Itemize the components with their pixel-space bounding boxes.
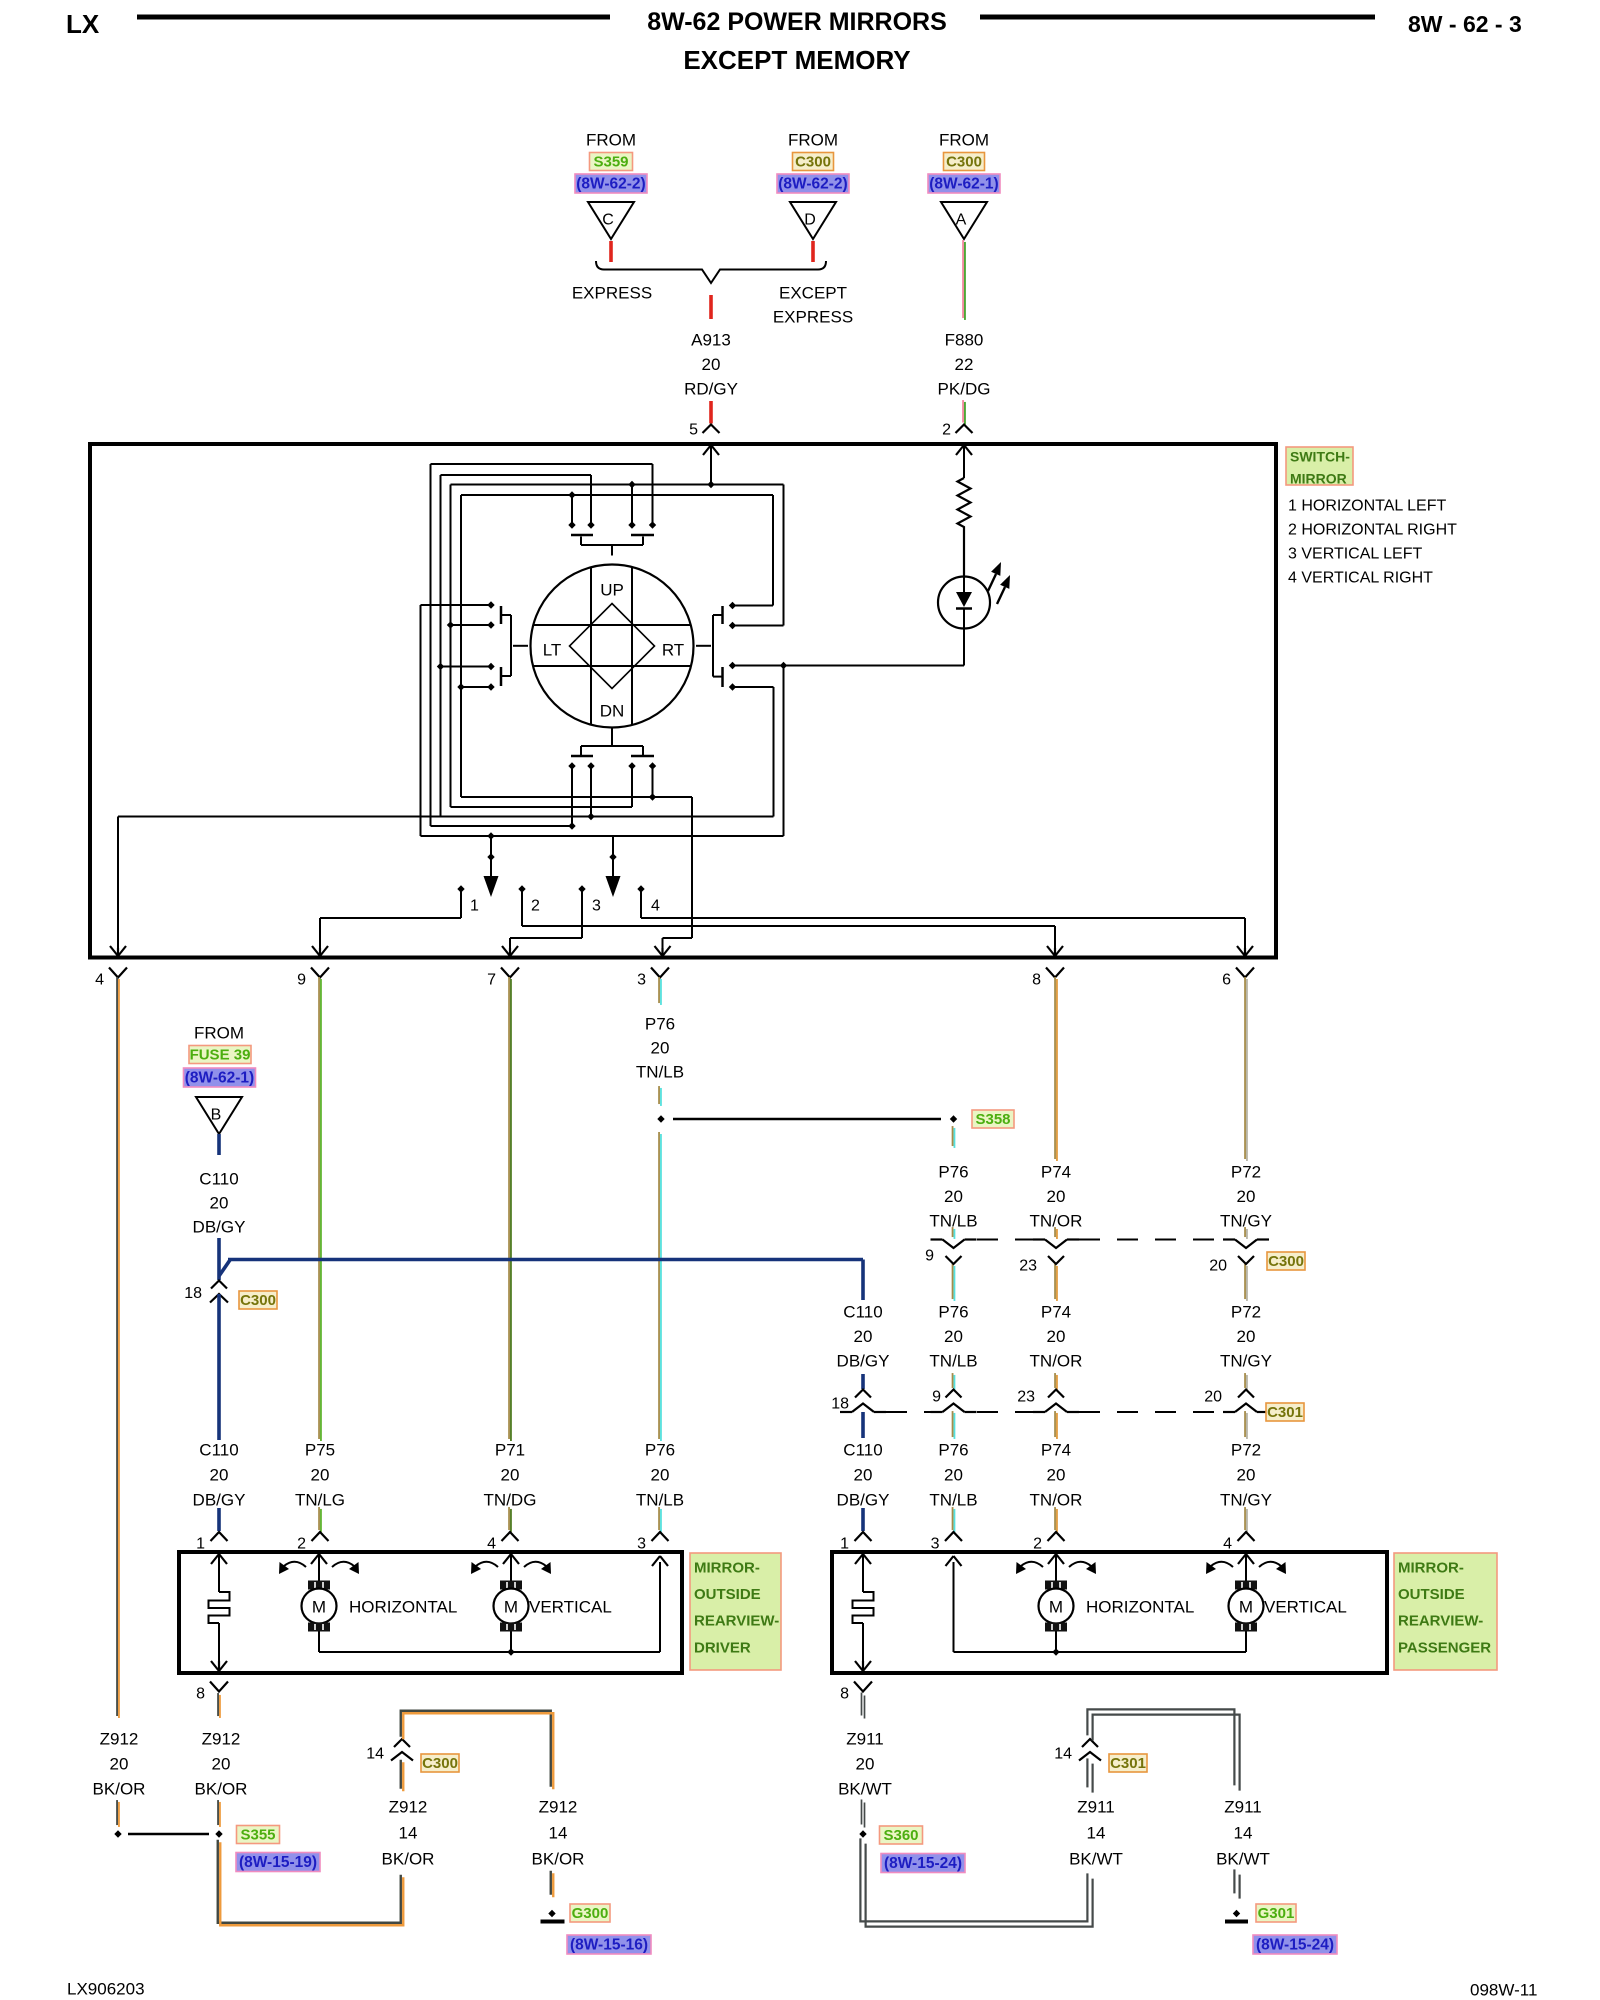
svg-text:8W-62 POWER MIRRORS: 8W-62 POWER MIRRORS (647, 8, 947, 36)
svg-text:BK/OR: BK/OR (532, 1850, 585, 1869)
svg-text:BK/OR: BK/OR (195, 1780, 248, 1799)
svg-text:20: 20 (854, 1327, 873, 1346)
svg-text:BK/OR: BK/OR (382, 1850, 435, 1869)
svg-text:MIRROR-: MIRROR- (694, 1560, 760, 1577)
svg-text:4 VERTICAL RIGHT: 4 VERTICAL RIGHT (1288, 570, 1433, 587)
svg-text:A913: A913 (691, 331, 731, 350)
svg-text:3: 3 (637, 972, 646, 989)
svg-text:TN/OR: TN/OR (1030, 1491, 1083, 1510)
svg-text:9: 9 (297, 972, 306, 989)
svg-text:(8W-62-2): (8W-62-2) (576, 176, 645, 193)
svg-text:18: 18 (831, 1396, 849, 1413)
svg-text:EXCEPT MEMORY: EXCEPT MEMORY (683, 45, 910, 75)
svg-text:1: 1 (196, 1536, 205, 1553)
svg-text:20: 20 (944, 1466, 963, 1485)
svg-text:EXPRESS: EXPRESS (773, 308, 853, 327)
svg-text:REARVIEW-: REARVIEW- (1398, 1613, 1483, 1630)
svg-text:14: 14 (549, 1824, 568, 1843)
svg-text:8: 8 (196, 1686, 205, 1703)
svg-text:P75: P75 (305, 1441, 335, 1460)
svg-text:P76: P76 (938, 1441, 968, 1460)
svg-text:2 HORIZONTAL RIGHT: 2 HORIZONTAL RIGHT (1288, 522, 1457, 539)
svg-text:S358: S358 (975, 1111, 1010, 1128)
svg-text:20: 20 (854, 1466, 873, 1485)
svg-text:1: 1 (470, 898, 479, 915)
svg-text:PK/DG: PK/DG (938, 380, 991, 399)
svg-text:8: 8 (840, 1686, 849, 1703)
svg-text:G300: G300 (572, 1905, 609, 1922)
svg-text:C110: C110 (843, 1303, 882, 1322)
svg-text:VERTICAL: VERTICAL (529, 1598, 612, 1617)
svg-text:20: 20 (1209, 1258, 1227, 1275)
svg-text:1: 1 (840, 1536, 849, 1553)
svg-text:HORIZONTAL: HORIZONTAL (349, 1598, 457, 1617)
svg-text:BK/OR: BK/OR (93, 1780, 146, 1799)
svg-text:G301: G301 (1258, 1905, 1295, 1922)
svg-text:TN/GY: TN/GY (1220, 1212, 1272, 1231)
svg-text:20: 20 (210, 1194, 229, 1213)
svg-text:FROM: FROM (939, 131, 989, 150)
svg-text:22: 22 (955, 355, 974, 374)
svg-text:(8W-15-19): (8W-15-19) (239, 1854, 317, 1871)
svg-text:P76: P76 (645, 1441, 675, 1460)
svg-text:20: 20 (210, 1466, 229, 1485)
svg-text:P76: P76 (645, 1015, 675, 1034)
svg-text:P72: P72 (1231, 1163, 1261, 1182)
svg-text:M: M (1049, 1598, 1063, 1617)
svg-text:TN/LB: TN/LB (929, 1491, 977, 1510)
svg-text:FUSE 39: FUSE 39 (190, 1047, 251, 1064)
svg-text:20: 20 (1237, 1187, 1256, 1206)
svg-text:23: 23 (1017, 1389, 1035, 1406)
svg-text:M: M (312, 1598, 326, 1617)
svg-text:P74: P74 (1041, 1441, 1071, 1460)
svg-text:20: 20 (212, 1755, 231, 1774)
svg-text:P72: P72 (1231, 1441, 1261, 1460)
svg-text:S355: S355 (240, 1827, 275, 1844)
svg-text:TN/LB: TN/LB (929, 1212, 977, 1231)
svg-text:14: 14 (399, 1824, 418, 1843)
svg-text:BK/WT: BK/WT (1069, 1850, 1123, 1869)
svg-text:18: 18 (184, 1285, 202, 1302)
svg-text:Z912: Z912 (202, 1730, 241, 1749)
svg-text:P71: P71 (495, 1441, 525, 1460)
svg-text:P74: P74 (1041, 1163, 1071, 1182)
svg-text:F880: F880 (945, 331, 984, 350)
svg-text:20: 20 (1204, 1389, 1222, 1406)
svg-text:DB/GY: DB/GY (193, 1491, 246, 1510)
svg-text:Z912: Z912 (389, 1798, 428, 1817)
svg-text:C300: C300 (240, 1292, 276, 1309)
svg-text:LT: LT (543, 641, 562, 660)
svg-text:FROM: FROM (194, 1024, 244, 1043)
svg-text:4: 4 (95, 972, 104, 989)
svg-text:20: 20 (1047, 1327, 1066, 1346)
svg-text:20: 20 (651, 1039, 670, 1058)
svg-text:TN/GY: TN/GY (1220, 1491, 1272, 1510)
svg-text:5: 5 (689, 422, 698, 439)
svg-text:098W-11: 098W-11 (1470, 1981, 1537, 2000)
svg-text:9: 9 (932, 1389, 941, 1406)
svg-text:20: 20 (1047, 1187, 1066, 1206)
svg-text:SWITCH-: SWITCH- (1290, 449, 1350, 465)
svg-text:TN/LG: TN/LG (295, 1491, 345, 1510)
svg-text:14: 14 (1087, 1824, 1106, 1843)
svg-text:20: 20 (1237, 1466, 1256, 1485)
svg-text:C301: C301 (1110, 1755, 1146, 1772)
svg-text:(8W-15-24): (8W-15-24) (884, 1855, 962, 1872)
svg-text:EXCEPT: EXCEPT (779, 284, 847, 303)
svg-text:14: 14 (366, 1746, 384, 1763)
svg-text:(8W-62-1): (8W-62-1) (929, 176, 998, 193)
svg-text:Z912: Z912 (539, 1798, 578, 1817)
svg-text:M: M (1239, 1598, 1253, 1617)
svg-text:DN: DN (600, 702, 625, 721)
svg-text:2: 2 (1033, 1536, 1042, 1553)
svg-text:REARVIEW-: REARVIEW- (694, 1613, 779, 1630)
svg-text:DRIVER: DRIVER (694, 1639, 751, 1656)
svg-text:3 VERTICAL LEFT: 3 VERTICAL LEFT (1288, 546, 1422, 563)
svg-text:C: C (602, 212, 614, 229)
svg-text:C300: C300 (946, 154, 982, 171)
svg-text:C300: C300 (1268, 1253, 1304, 1270)
svg-text:HORIZONTAL: HORIZONTAL (1086, 1598, 1194, 1617)
svg-text:8W - 62 - 3: 8W - 62 - 3 (1408, 11, 1522, 37)
svg-text:P76: P76 (938, 1303, 968, 1322)
svg-text:Z911: Z911 (1077, 1798, 1115, 1817)
svg-text:P74: P74 (1041, 1303, 1071, 1322)
svg-text:TN/LB: TN/LB (929, 1352, 977, 1371)
svg-text:2: 2 (297, 1536, 306, 1553)
svg-text:20: 20 (702, 355, 721, 374)
svg-text:DB/GY: DB/GY (837, 1352, 890, 1371)
svg-text:8: 8 (1032, 972, 1041, 989)
svg-text:Z912: Z912 (100, 1730, 139, 1749)
svg-text:TN/GY: TN/GY (1220, 1352, 1272, 1371)
svg-text:C301: C301 (1267, 1404, 1303, 1421)
svg-text:C300: C300 (422, 1755, 458, 1772)
svg-text:20: 20 (944, 1187, 963, 1206)
svg-text:C110: C110 (199, 1441, 238, 1460)
svg-text:D: D (804, 212, 816, 229)
svg-text:4: 4 (1223, 1536, 1232, 1553)
svg-text:C110: C110 (199, 1170, 238, 1189)
svg-text:6: 6 (1222, 972, 1231, 989)
svg-text:UP: UP (600, 581, 624, 600)
svg-text:9: 9 (925, 1248, 934, 1265)
svg-text:OUTSIDE: OUTSIDE (1398, 1586, 1465, 1603)
svg-text:TN/OR: TN/OR (1030, 1212, 1083, 1231)
svg-text:20: 20 (651, 1466, 670, 1485)
svg-text:20: 20 (944, 1327, 963, 1346)
svg-text:14: 14 (1234, 1824, 1253, 1843)
svg-text:EXPRESS: EXPRESS (572, 284, 652, 303)
svg-text:RD/GY: RD/GY (684, 380, 738, 399)
svg-text:20: 20 (311, 1466, 330, 1485)
svg-text:LX906203: LX906203 (67, 1980, 145, 1999)
svg-text:A: A (956, 212, 967, 229)
svg-text:OUTSIDE: OUTSIDE (694, 1586, 761, 1603)
svg-text:B: B (211, 1107, 222, 1124)
svg-text:20: 20 (1047, 1466, 1066, 1485)
svg-text:VERTICAL: VERTICAL (1264, 1598, 1347, 1617)
svg-text:20: 20 (501, 1466, 520, 1485)
svg-text:S359: S359 (593, 154, 628, 171)
svg-text:4: 4 (487, 1536, 496, 1553)
svg-text:FROM: FROM (586, 131, 636, 150)
svg-text:TN/LB: TN/LB (636, 1063, 684, 1082)
svg-text:P72: P72 (1231, 1303, 1261, 1322)
svg-text:3: 3 (592, 898, 601, 915)
svg-text:LX: LX (66, 9, 100, 39)
svg-text:RT: RT (662, 641, 684, 660)
svg-text:20: 20 (856, 1755, 875, 1774)
svg-text:Z911: Z911 (846, 1730, 884, 1749)
svg-text:7: 7 (487, 972, 496, 989)
svg-text:S360: S360 (883, 1827, 918, 1844)
svg-text:FROM: FROM (788, 131, 838, 150)
svg-text:20: 20 (1237, 1327, 1256, 1346)
svg-text:PASSENGER: PASSENGER (1398, 1639, 1491, 1656)
svg-text:2: 2 (942, 422, 951, 439)
svg-text:(8W-62-1): (8W-62-1) (185, 1070, 254, 1087)
svg-text:BK/WT: BK/WT (838, 1780, 892, 1799)
svg-text:(8W-62-2): (8W-62-2) (778, 176, 847, 193)
svg-text:TN/DG: TN/DG (484, 1491, 537, 1510)
svg-text:DB/GY: DB/GY (193, 1218, 246, 1237)
svg-text:MIRROR: MIRROR (1290, 471, 1347, 487)
svg-text:TN/LB: TN/LB (636, 1491, 684, 1510)
svg-text:4: 4 (651, 898, 660, 915)
svg-text:14: 14 (1054, 1746, 1072, 1763)
svg-text:M: M (504, 1598, 518, 1617)
svg-text:23: 23 (1019, 1258, 1037, 1275)
svg-text:P76: P76 (938, 1163, 968, 1182)
svg-text:MIRROR-: MIRROR- (1398, 1560, 1464, 1577)
svg-text:Z911: Z911 (1224, 1798, 1262, 1817)
svg-text:C300: C300 (795, 154, 831, 171)
svg-text:(8W-15-24): (8W-15-24) (1256, 1937, 1334, 1954)
svg-text:DB/GY: DB/GY (837, 1491, 890, 1510)
svg-text:3: 3 (637, 1536, 646, 1553)
svg-text:(8W-15-16): (8W-15-16) (570, 1937, 648, 1954)
svg-text:3: 3 (931, 1536, 940, 1553)
svg-text:BK/WT: BK/WT (1216, 1850, 1270, 1869)
svg-text:C110: C110 (843, 1441, 882, 1460)
svg-text:TN/OR: TN/OR (1030, 1352, 1083, 1371)
svg-text:20: 20 (110, 1755, 129, 1774)
svg-text:2: 2 (531, 898, 540, 915)
svg-text:1 HORIZONTAL LEFT: 1 HORIZONTAL LEFT (1288, 498, 1446, 515)
